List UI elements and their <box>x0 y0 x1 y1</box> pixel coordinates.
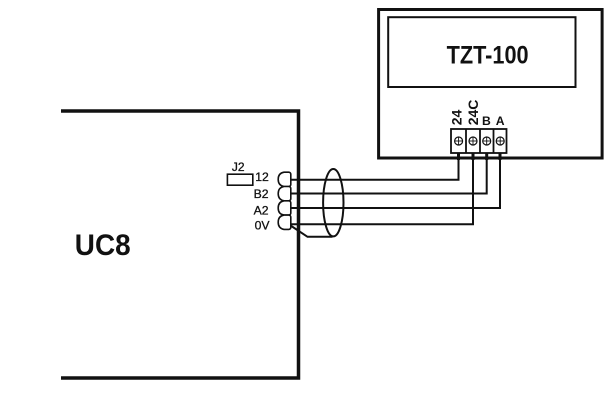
terminal B wire stub <box>485 153 488 161</box>
terminal divider 3 <box>493 129 495 153</box>
connector J2 <box>227 174 252 185</box>
wire 12 to terminal 24 <box>290 152 459 180</box>
cable sheath ellipse <box>323 169 343 236</box>
svg-text:UC8: UC8 <box>75 229 131 262</box>
svg-text:J2: J2 <box>232 160 245 174</box>
svg-text:24C: 24C <box>465 100 481 126</box>
svg-text:24: 24 <box>449 110 465 126</box>
connector pin tab 0V <box>278 215 291 229</box>
svg-text:A2: A2 <box>254 203 269 217</box>
wire A2 to terminal A <box>290 152 500 208</box>
wire 0V to terminal 24C <box>290 152 473 224</box>
wire B2 to terminal B <box>290 152 487 194</box>
terminal A wire stub <box>499 153 502 161</box>
box UC8 (left-open enclosure) <box>61 111 299 378</box>
svg-text:B2: B2 <box>254 187 269 201</box>
connector pin tab 12 <box>278 172 291 186</box>
terminal 24C wire stub <box>472 153 475 161</box>
svg-text:TZT-100: TZT-100 <box>447 42 529 70</box>
terminal screw A <box>496 137 504 145</box>
connector pin tab B2 <box>278 187 291 201</box>
terminal divider 1 <box>465 129 467 153</box>
connector pin tab A2 <box>278 201 291 215</box>
svg-text:12: 12 <box>255 170 269 184</box>
terminal screw 24 <box>455 137 463 145</box>
box TZT-100 outer enclosure <box>379 10 602 159</box>
terminal screw B <box>483 137 491 145</box>
terminal screw 24C <box>469 137 477 145</box>
svg-text:0V: 0V <box>255 218 271 232</box>
svg-text:A: A <box>496 114 505 128</box>
display window TZT-100 <box>388 17 575 87</box>
terminal divider 2 <box>479 129 481 153</box>
terminal 24 wire stub <box>457 153 460 161</box>
wire cable shield to 0V <box>291 226 333 237</box>
terminal block outline <box>451 129 507 153</box>
svg-text:B: B <box>482 114 491 128</box>
